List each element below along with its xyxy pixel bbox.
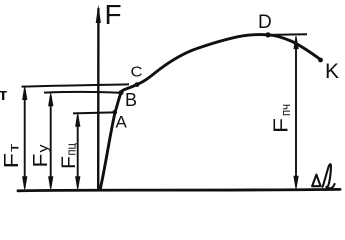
label Fpch (rotated) (271, 104, 293, 133)
label delta-l (312, 164, 335, 188)
svg-text:C: C (131, 65, 143, 81)
svg-text:т: т (0, 85, 7, 104)
svg-text:F: F (59, 156, 80, 169)
point B (119, 90, 124, 95)
level line at D (262, 33, 307, 36)
level line Fy (at B) (44, 91, 120, 94)
arrow Ft (vertical double arrow) (23, 87, 27, 189)
svg-text:т: т (6, 144, 21, 153)
label Fy (rotated) (30, 144, 52, 167)
svg-text:B: B (125, 90, 137, 110)
label Fpc (rotated) (59, 143, 80, 169)
axis delta-l (baseline) (18, 189, 340, 190)
svg-text:F: F (271, 118, 293, 133)
svg-text:F: F (105, 0, 122, 30)
point C (135, 82, 140, 87)
arrow Fpch (right vertical double arrow) (294, 36, 298, 188)
level line Ft (at C) (22, 84, 130, 86)
svg-text:K: K (325, 60, 339, 83)
label Ft (rotated) (1, 144, 23, 169)
point A (113, 110, 118, 115)
arrow Fpc (vertical double arrow) (76, 114, 80, 189)
curve (tension diagram) (100, 35, 321, 190)
level line Fpc (at A) (73, 112, 114, 113)
point K (318, 58, 323, 63)
svg-text:A: A (116, 113, 128, 132)
svg-text:D: D (258, 12, 272, 33)
point D (265, 32, 270, 37)
axis F arrowhead (96, 5, 101, 24)
arrow Fy (vertical double arrow) (49, 93, 53, 189)
svg-text:F: F (1, 153, 23, 169)
axis F (vertical) (97, 9, 100, 190)
svg-text:F: F (30, 154, 52, 168)
svg-text:у: у (36, 144, 51, 152)
svg-text:пц: пц (65, 143, 79, 156)
svg-text:пч: пч (279, 104, 293, 116)
